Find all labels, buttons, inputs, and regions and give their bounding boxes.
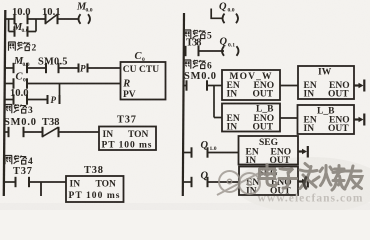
wire	[27, 67, 46, 69]
contact I0.0 n2	[14, 94, 28, 104]
contact T38 NC	[42, 127, 59, 137]
timer T38 TON box	[66, 176, 124, 202]
wire ENO to IW	[280, 85, 298, 87]
wire	[24, 131, 43, 133]
contact T37	[16, 177, 30, 187]
output terminator row4	[298, 176, 308, 188]
wire rail to contact C0	[5, 83, 14, 85]
contact SM0.0	[9, 127, 24, 137]
block IW	[298, 66, 354, 99]
wire to coil Q0.1	[199, 50, 225, 52]
wire rail to SM0.0 n6	[183, 85, 186, 87]
scan shading bottom band	[0, 203, 370, 210]
wire rail to T38 n5	[184, 50, 186, 52]
block SEG 1	[239, 136, 299, 165]
right power rail	[183, 13, 184, 196]
contact SM0.5	[46, 63, 59, 73]
label network 2	[8, 42, 36, 53]
contact C0	[14, 78, 28, 88]
output terminator row2	[354, 114, 364, 126]
wire to SEG	[208, 152, 239, 154]
wire rail to contact I0.0 n2	[5, 99, 14, 101]
contact I0.0	[15, 14, 28, 24]
contact I0.1 NC	[45, 14, 58, 24]
wire to coil M0.0	[58, 18, 79, 20]
wire rung1 rail to contact I0.0	[5, 18, 15, 20]
wire between L_B blocks	[280, 117, 298, 119]
coil M0.0	[79, 14, 81, 24]
contact P positive edge	[79, 64, 88, 73]
contact SM0.0 n6	[187, 80, 208, 90]
block L_B right	[298, 105, 355, 134]
wire branch up-right	[35, 19, 37, 32]
wire	[59, 67, 79, 69]
wire rail to contact Q row4	[183, 181, 192, 183]
watermark dark accent stroke	[304, 178, 306, 189]
timer T37 TON box	[99, 127, 156, 151]
contact M0.0 parallel	[15, 26, 28, 36]
contact P edge n2	[48, 95, 60, 104]
wire rail to contact M0.0 n2	[5, 67, 14, 69]
junction wire down to row2	[213, 86, 215, 118]
label network 3	[5, 104, 33, 115]
wire branch down-left	[8, 19, 10, 32]
counter C0 CTU box	[121, 62, 166, 100]
wire rail to SM0.0	[4, 131, 8, 133]
wire rail to contact Q1.0	[183, 152, 191, 154]
contact M0.0 n2	[14, 63, 28, 73]
wire to TON T37	[59, 131, 100, 133]
label network 6	[184, 60, 212, 71]
wire contact I0.0 to contact I0.1	[28, 18, 46, 20]
wire	[27, 99, 48, 101]
wire rail to T37	[4, 181, 16, 183]
wire to MOV_W	[207, 85, 222, 87]
coil Q0.1	[222, 46, 224, 56]
block SEG 2	[239, 167, 298, 196]
label network 5	[184, 30, 212, 41]
wire wrap to coil Q0.0	[211, 9, 223, 19]
coil Q0.0	[223, 14, 225, 24]
output terminator row1	[354, 80, 364, 92]
wire to R input	[27, 83, 121, 85]
block MOV_W	[222, 70, 280, 100]
wire to TON T38	[29, 181, 66, 183]
wire to CU input	[88, 67, 121, 69]
scan shading right watermark haze	[235, 157, 370, 213]
contact Q row4	[192, 177, 208, 187]
wire junction to L_B	[214, 117, 222, 119]
contact Q1.0	[192, 147, 208, 157]
wire parallel rung left	[9, 31, 15, 33]
output terminator row3	[298, 146, 308, 158]
block L_B left	[222, 104, 280, 132]
watermark text dian zi fa shao you	[260, 164, 363, 191]
left power rail	[4, 10, 6, 196]
wire up to R rung	[59, 84, 61, 100]
watermark circle logo	[217, 171, 261, 195]
wire to SEG 2	[208, 181, 240, 183]
contact T38 n5	[186, 46, 199, 56]
junction stub down	[40, 182, 42, 196]
wire parallel rung right	[28, 31, 37, 33]
label network 4	[5, 155, 33, 166]
